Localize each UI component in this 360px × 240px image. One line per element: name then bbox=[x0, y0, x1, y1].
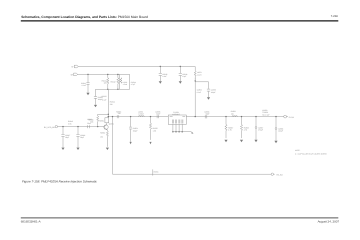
capacitor C0546 on 5F rail bbox=[180, 66, 181, 67]
wire net 5R bbox=[78, 73, 120, 75]
node at C0547 bbox=[62, 126, 63, 127]
svg-text:1.0uH: 1.0uH bbox=[197, 73, 202, 76]
port RX INJ bbox=[271, 173, 273, 175]
wire collector stub bbox=[106, 123, 108, 125]
capacitor C0554 shunt bbox=[129, 117, 132, 142]
wire emitter bbox=[106, 130, 108, 131]
wire lower rail of bias network bbox=[96, 88, 120, 90]
capacitor C0556 series bbox=[205, 115, 207, 118]
svg-text:0.1uF: 0.1uF bbox=[82, 84, 86, 87]
crystal filter FL0551 bbox=[168, 115, 186, 124]
wire L0551 to injection line bbox=[194, 78, 196, 117]
ground arrow for C0554 bbox=[130, 142, 132, 145]
svg-text:Schematics, Component Location: Schematics, Component Location Diagrams,… bbox=[21, 15, 148, 19]
capacitor C0553 bbox=[207, 82, 210, 98]
node at R0557 bbox=[225, 116, 226, 117]
ground for C0545 bbox=[159, 81, 162, 83]
label R0544 bbox=[110, 100, 115, 106]
port J2 label RX VCO bbox=[44, 126, 55, 129]
ground for R0558 bbox=[240, 140, 243, 142]
node collector junction bbox=[108, 116, 109, 117]
port J2 connector bbox=[55, 125, 57, 127]
svg-text:220: 220 bbox=[231, 112, 234, 115]
port P2 label 5R bbox=[71, 74, 74, 77]
ground for C0542 bbox=[94, 105, 97, 107]
resistor R0541 bbox=[107, 74, 109, 89]
svg-text:R0551: R0551 bbox=[99, 120, 104, 123]
port RX IF OUT bbox=[284, 115, 287, 118]
capacitor C0541 bbox=[86, 74, 89, 92]
svg-text:R0544: R0544 bbox=[110, 100, 115, 103]
svg-text:82pF: 82pF bbox=[156, 112, 160, 115]
node at C0558 bbox=[275, 116, 276, 117]
svg-text:4.7pF: 4.7pF bbox=[131, 83, 135, 86]
filter ground arrow bbox=[191, 132, 193, 134]
label right of L0541 bbox=[131, 81, 136, 86]
resistor R0555 shunt bbox=[149, 117, 151, 140]
svg-text:330: 330 bbox=[110, 103, 113, 106]
svg-text:150: 150 bbox=[100, 135, 103, 138]
label C0543 bbox=[101, 95, 106, 101]
inductor L0541 shield box bbox=[120, 74, 130, 89]
capacitor C0555 series bbox=[157, 115, 159, 118]
ground arrow for R0555 bbox=[149, 142, 151, 145]
wire bias tap bbox=[98, 113, 109, 115]
wire collector output line bbox=[108, 116, 168, 118]
jumper E0551 bbox=[152, 169, 154, 175]
svg-text:100pF: 100pF bbox=[211, 91, 216, 94]
wire base input line bbox=[58, 126, 105, 128]
transistor Q0551 bbox=[104, 125, 108, 129]
svg-text:150pF: 150pF bbox=[133, 129, 138, 132]
port P1 label 5F bbox=[71, 65, 74, 68]
node on net 5R at C0541 bbox=[87, 74, 88, 75]
node at C0554 bbox=[130, 116, 131, 117]
wire branch to C0553 bbox=[195, 81, 208, 83]
ground for R0552 bbox=[106, 148, 109, 150]
svg-text:0.1uF: 0.1uF bbox=[197, 91, 201, 94]
resistor R0556 series bbox=[232, 115, 237, 118]
svg-text:RX_INJ: RX_INJ bbox=[277, 173, 283, 176]
ground for R0557 bbox=[224, 140, 227, 142]
svg-text:10pF: 10pF bbox=[182, 75, 186, 78]
svg-text:1.2uH: 1.2uH bbox=[123, 83, 128, 86]
resistor R0552 emitter bbox=[106, 131, 108, 147]
wire net 5F rail bbox=[78, 66, 195, 68]
filter ground bus bbox=[173, 131, 191, 133]
node bias to base bbox=[97, 126, 98, 127]
header rule bbox=[21, 20, 339, 22]
svg-text:18pF: 18pF bbox=[65, 136, 69, 139]
ground for C0547 bbox=[61, 148, 64, 150]
port P1 connector symbol bbox=[74, 65, 78, 68]
svg-text:270pF: 270pF bbox=[258, 129, 263, 132]
inductor L0551 bbox=[194, 67, 196, 80]
inductor L0552 series bbox=[139, 115, 145, 118]
svg-text:39pF: 39pF bbox=[80, 136, 84, 139]
wire filter to output chain bbox=[186, 116, 283, 118]
node at C0548 bbox=[77, 126, 78, 127]
wire collector feed bbox=[107, 89, 109, 117]
node dots bias network bbox=[107, 74, 119, 90]
svg-text:220: 220 bbox=[118, 112, 121, 115]
node at C0557 bbox=[255, 116, 256, 117]
node bottom rail tap bbox=[112, 116, 113, 117]
svg-text:44.85MHZ: 44.85MHZ bbox=[172, 113, 180, 116]
capacitor C0542 bbox=[94, 89, 97, 105]
svg-text:Figure 7-158. PMLF4025A Recei: Figure 7-158. PMLF4025A Receive Injectio… bbox=[22, 180, 97, 184]
ground for C0546 bbox=[179, 81, 182, 83]
node at R0555 bbox=[150, 116, 151, 117]
svg-text:C0549: C0549 bbox=[87, 118, 92, 121]
ground for C0541 bbox=[86, 93, 89, 95]
svg-text:Q0551: Q0551 bbox=[109, 122, 114, 125]
svg-text:6816532H01-A: 6816532H01-A bbox=[21, 220, 41, 224]
ground for C0553 bbox=[207, 97, 210, 99]
port P2 connector symbol bbox=[74, 73, 78, 76]
wire bottom injection rail bbox=[113, 117, 272, 175]
resistor R0546 bias bbox=[97, 114, 99, 126]
capacitor C0548 bbox=[76, 127, 79, 148]
svg-text:7-228: 7-228 bbox=[331, 15, 338, 18]
node injection feed bbox=[195, 116, 196, 117]
svg-text:100pF: 100pF bbox=[278, 130, 283, 133]
resistor R0542 bbox=[117, 74, 119, 89]
svg-text:0.1uF: 0.1uF bbox=[102, 98, 106, 101]
svg-text:82pF: 82pF bbox=[206, 112, 210, 115]
capacitor C0549 series bbox=[88, 125, 90, 128]
svg-text:RX_VCO_INJ: RX_VCO_INJ bbox=[44, 126, 55, 129]
svg-text:C = CAP VALUES IN pF UNLESS NO: C = CAP VALUES IN pF UNLESS NOTED bbox=[295, 152, 328, 155]
label C0559 TP0551 bbox=[262, 109, 269, 117]
svg-text:C0543: C0543 bbox=[101, 95, 106, 98]
svg-text:FL5,M: FL5,M bbox=[289, 116, 295, 119]
svg-text:NU 0.1uF: NU 0.1uF bbox=[262, 114, 269, 117]
ground for C0557 bbox=[254, 140, 257, 142]
resistor R0551 collector bbox=[105, 118, 109, 123]
footer rule bbox=[21, 217, 339, 218]
node below L0551 bbox=[195, 80, 196, 81]
ground for C0558 bbox=[274, 141, 277, 143]
svg-text:33pF: 33pF bbox=[87, 122, 91, 125]
svg-text:E0551: E0551 bbox=[154, 171, 159, 174]
svg-text:August 24, 2007: August 24, 2007 bbox=[318, 220, 340, 224]
label R0545 above base line bbox=[68, 120, 73, 125]
resistor R0557 shunt bbox=[225, 117, 227, 139]
node at R0558 bbox=[241, 116, 242, 117]
svg-text:R0552: R0552 bbox=[100, 131, 105, 134]
resistor R0553 series bbox=[117, 115, 119, 118]
capacitor C0547 bbox=[61, 127, 64, 148]
schematic note bbox=[295, 149, 328, 155]
filter pins to ground bus bbox=[173, 124, 182, 131]
resistor R0558 shunt bbox=[240, 117, 242, 139]
node collector feed upper bbox=[108, 114, 109, 115]
ground for C0548 bbox=[76, 148, 79, 150]
svg-text:NOTE:: NOTE: bbox=[295, 149, 301, 152]
svg-text:R0542: R0542 bbox=[111, 81, 116, 84]
capacitor C0557 shunt bbox=[255, 117, 257, 140]
svg-text:0.1uF: 0.1uF bbox=[162, 75, 166, 78]
capacitor C0545 on 5F rail bbox=[160, 66, 161, 67]
svg-text:0.33uH: 0.33uH bbox=[138, 112, 144, 115]
capacitor C0558 shunt bbox=[275, 117, 277, 141]
